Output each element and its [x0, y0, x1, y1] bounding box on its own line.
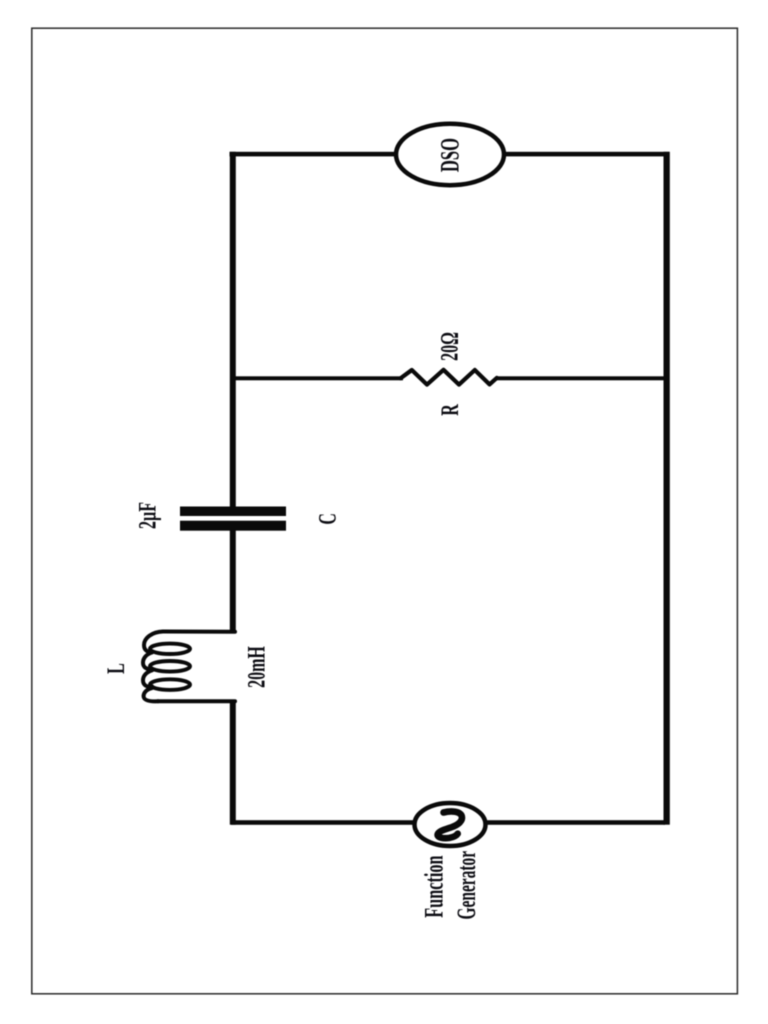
- wire: bottom horizontal, left of function generator: [231, 820, 413, 825]
- capacitor C plate 1: [180, 507, 286, 517]
- wire: left vertical, capacitor to inductor: [230, 530, 236, 633]
- svg-text:Generator: Generator: [452, 851, 481, 920]
- resistor R zigzag: [401, 370, 497, 385]
- capacitor C plate 2: [180, 521, 286, 531]
- function generator sine symbol: [438, 811, 462, 838]
- wire: bottom horizontal, right of function generator: [487, 820, 665, 825]
- wire: middle horizontal, right of resistor: [496, 376, 665, 380]
- wire: top horizontal, left of DSO: [230, 152, 396, 157]
- wire: right vertical: [664, 152, 670, 825]
- inductor L top connector: [163, 630, 235, 634]
- wire: middle horizontal, left of resistor: [231, 376, 403, 380]
- function generator ellipse: [415, 803, 486, 846]
- inductor L hump 2: [143, 653, 152, 670]
- svg-text:20mH: 20mH: [242, 646, 271, 688]
- inductor L hump 3: [143, 670, 152, 686]
- svg-text:L: L: [101, 663, 130, 674]
- inductor L loop 3: [150, 679, 190, 690]
- svg-text:2µF: 2µF: [133, 502, 162, 529]
- svg-text:C: C: [313, 513, 342, 525]
- inductor L bottom connector: [158, 699, 235, 703]
- oscilloscope DSO ellipse: [396, 124, 504, 185]
- inductor L hump 1: [144, 632, 163, 653]
- inductor L loop 2: [150, 661, 190, 672]
- wire: top horizontal, right of DSO: [505, 152, 670, 157]
- svg-text:R: R: [435, 404, 464, 416]
- svg-text:Function: Function: [420, 855, 449, 917]
- svg-text:DSO: DSO: [436, 138, 465, 172]
- wire: left vertical, inductor to bottom wire: [230, 701, 236, 825]
- inductor L hump 4: [144, 688, 158, 701]
- svg-text:20Ω: 20Ω: [435, 332, 464, 361]
- wire: left vertical, top wire to capacitor: [230, 152, 236, 507]
- inductor L loop 1: [150, 644, 190, 654]
